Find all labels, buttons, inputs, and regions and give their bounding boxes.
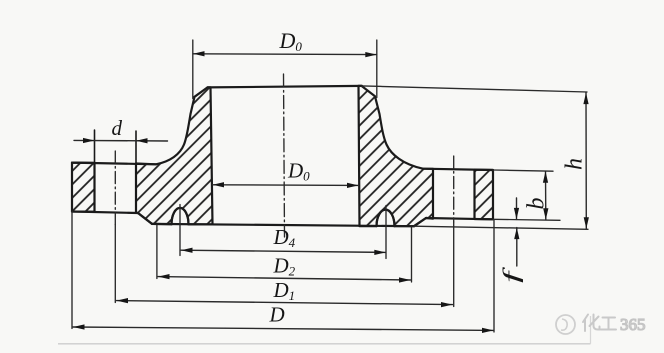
- dimension D2 extension left: [156, 225, 158, 279]
- dimension D extension right: [493, 220, 495, 332]
- dome centerline left: [179, 205, 181, 256]
- flange ring bottom right: [426, 218, 493, 219]
- weld gap dome left: [172, 208, 189, 225]
- dimension D1 extension right: [453, 222, 455, 307]
- watermark logo: [556, 315, 575, 334]
- flange top face right: [423, 169, 493, 170]
- svg-text:D: D: [269, 303, 285, 327]
- dimension line d: [74, 139, 168, 142]
- flange section hatched region left hub: [136, 87, 213, 224]
- dimension line D2: [158, 277, 411, 280]
- dimension f upper arrow: [516, 198, 518, 219]
- dimension f lower arrow: [516, 228, 518, 266]
- raised face bevel left: [138, 213, 152, 224]
- flange section hatched region right outer: [475, 170, 494, 220]
- flange section hatched region right hub: [359, 86, 434, 226]
- dimension D extension left: [71, 212, 73, 329]
- bolt hole left edge lines: [94, 130, 96, 212]
- svg-text:365: 365: [620, 315, 646, 334]
- flange top extension right for b: [493, 170, 553, 171]
- flange section hatched region left outer: [72, 163, 95, 212]
- raised face bevel right: [414, 218, 426, 226]
- watermark text hua: [583, 315, 600, 332]
- dimension line D4: [181, 250, 386, 252]
- dimension D2 extension right: [411, 227, 413, 282]
- dimension line D1: [117, 301, 453, 305]
- bolt hole right edge lines: [432, 169, 434, 219]
- svg-text:h: h: [562, 158, 588, 170]
- neck top extension line to h: [362, 86, 587, 92]
- bolt centerline right: [453, 156, 455, 222]
- dimension line D0 top: [193, 53, 377, 56]
- dimension D0 top extension left: [192, 40, 194, 99]
- watermark text gong: [601, 318, 616, 330]
- dome centerline right: [385, 206, 387, 259]
- raised face bottom extension line to h: [414, 226, 588, 229]
- raised face bottom: [152, 224, 414, 226]
- flange bottom extension right for b: [493, 219, 560, 220]
- neck top face: [208, 86, 363, 88]
- weld gap dome right: [377, 210, 395, 227]
- bolt centerline left: [114, 151, 116, 225]
- svg-text:d: d: [112, 116, 123, 140]
- dimension line h: [585, 93, 587, 229]
- dimension line b: [545, 171, 547, 220]
- flange top face left: [72, 163, 156, 165]
- flange ring bottom left: [72, 212, 138, 214]
- dimension D0 top extension right: [376, 40, 378, 98]
- svg-text:b: b: [524, 198, 550, 210]
- dimension D1 extension left: [114, 225, 116, 303]
- dimension line D: [73, 327, 494, 330]
- dimension line D0 middle (bore): [213, 184, 359, 187]
- pipe centerline: [284, 74, 285, 237]
- watermark gray rule: [58, 343, 591, 345]
